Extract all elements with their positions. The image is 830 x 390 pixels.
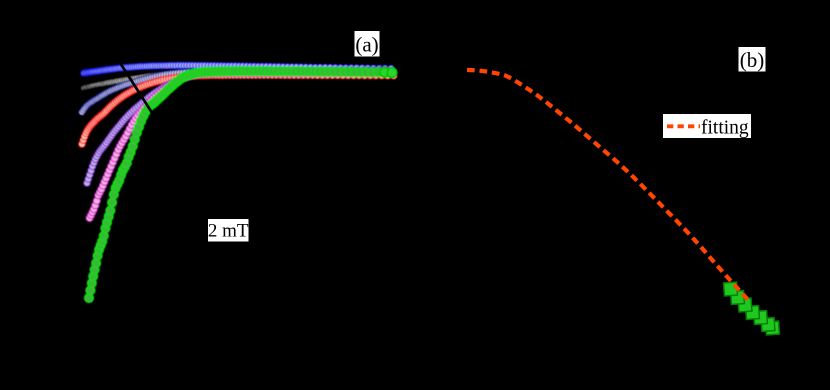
data series: blue curve, panel (a): [81, 62, 394, 76]
label: 2 mT: [208, 219, 249, 242]
svg-text:(a): (a): [355, 33, 378, 57]
svg-text:fitting: fitting: [701, 118, 749, 139]
data series: green curve, panel (a): [85, 67, 394, 303]
label: (b): [739, 47, 766, 72]
data series: navy curve, panel (a): [79, 67, 391, 115]
svg-text:2 mT: 2 mT: [208, 221, 249, 242]
green square data markers, panel (b): [724, 282, 780, 335]
data series: violet curve, panel (a): [84, 68, 379, 186]
data series: red curve, panel (a): [79, 72, 397, 147]
legend box with dash sample and text: fitting: [663, 114, 751, 139]
fitting curve: orange dashed, panel (b): [467, 70, 750, 302]
data series: black curve, panel (a): [81, 67, 388, 91]
annotation arrow line crossing curves toward green 2 mT curve: [121, 64, 153, 114]
data series: magenta curve, panel (a): [86, 70, 378, 222]
label: (a): [355, 31, 380, 57]
svg-text:(b): (b): [740, 48, 765, 72]
final solid green markers at right end of green curve: [380, 68, 397, 78]
